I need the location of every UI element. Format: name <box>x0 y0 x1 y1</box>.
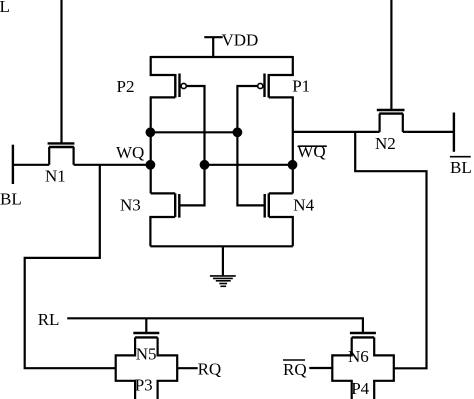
svg-text:VDD: VDD <box>222 31 259 50</box>
svg-text:P4: P4 <box>351 379 369 398</box>
node dot WQB column <box>200 160 210 170</box>
svg-text:WQ: WQ <box>116 143 144 162</box>
svg-text:BL: BL <box>0 190 22 209</box>
svg-text:N2: N2 <box>375 134 396 153</box>
wire RQ <box>177 367 198 369</box>
node WQ dot <box>146 160 156 170</box>
overline of RQB label <box>283 359 305 361</box>
wire cross-couple WQB to P2/N3 gates <box>205 164 293 166</box>
svg-text:WQ: WQ <box>297 142 325 161</box>
svg-text:N5: N5 <box>136 345 157 364</box>
transistor P3 cross outline left <box>116 337 135 399</box>
transistor N3 <box>150 193 179 246</box>
transistor P1 <box>258 56 293 98</box>
svg-text:RQ: RQ <box>198 360 222 379</box>
wire WQ to N5 left arm <box>25 165 116 368</box>
svg-text:P1: P1 <box>292 76 310 95</box>
vdd terminal <box>204 37 222 57</box>
transistor P4 cross outline right <box>374 337 394 399</box>
transistor N4 <box>265 193 293 246</box>
transistor N5 <box>133 318 159 337</box>
node dot left rail upper <box>146 127 156 137</box>
node dot right rail lower <box>288 160 298 170</box>
svg-text:P3: P3 <box>135 376 153 395</box>
overline of BLB label <box>450 156 471 158</box>
wire P1 drain / right rail <box>269 97 293 193</box>
wire P2 drain / left rail <box>151 97 176 193</box>
wire P2 gate to node WQB column and N3 gate <box>179 86 204 205</box>
wire N2 to BLB <box>403 131 454 133</box>
svg-text:N1: N1 <box>45 167 66 186</box>
node dot WQ column top <box>233 127 243 137</box>
wire BL to N1 source <box>13 164 49 166</box>
transistor P2 <box>151 56 187 98</box>
svg-text:N4: N4 <box>293 195 314 214</box>
transistor N1 <box>48 143 75 164</box>
wire cross-couple WQ to P1/N4 gates <box>151 131 238 133</box>
wire ground rail <box>150 245 292 247</box>
svg-text:RL: RL <box>38 310 60 329</box>
power rail VDD <box>151 56 293 58</box>
transistor N2 <box>377 0 405 132</box>
svg-text:N3: N3 <box>120 196 141 215</box>
transistor N6 <box>350 333 376 337</box>
wire WQ (N1 drain to latch) <box>74 164 151 166</box>
transistor P4 cross outline left <box>332 337 351 399</box>
wire P1 gate to node WQ column and N4 gate <box>237 86 264 205</box>
svg-text:N6: N6 <box>348 347 369 366</box>
wire WL <box>60 0 62 143</box>
terminal BLB <box>453 113 455 152</box>
svg-text:P2: P2 <box>117 77 135 96</box>
svg-text:RQ: RQ <box>283 360 307 379</box>
transistor P3 cross outline right <box>158 337 178 399</box>
ground <box>210 246 236 286</box>
terminal BL <box>12 145 14 184</box>
svg-text:L: L <box>0 0 10 16</box>
svg-text:BL: BL <box>450 158 472 177</box>
wire RL <box>67 318 363 333</box>
wire WQB to N2 <box>293 131 380 133</box>
wire WQB to N6 right arm (jog) <box>355 132 426 368</box>
wire RQB <box>309 367 332 369</box>
overline of WQB label <box>298 145 327 147</box>
